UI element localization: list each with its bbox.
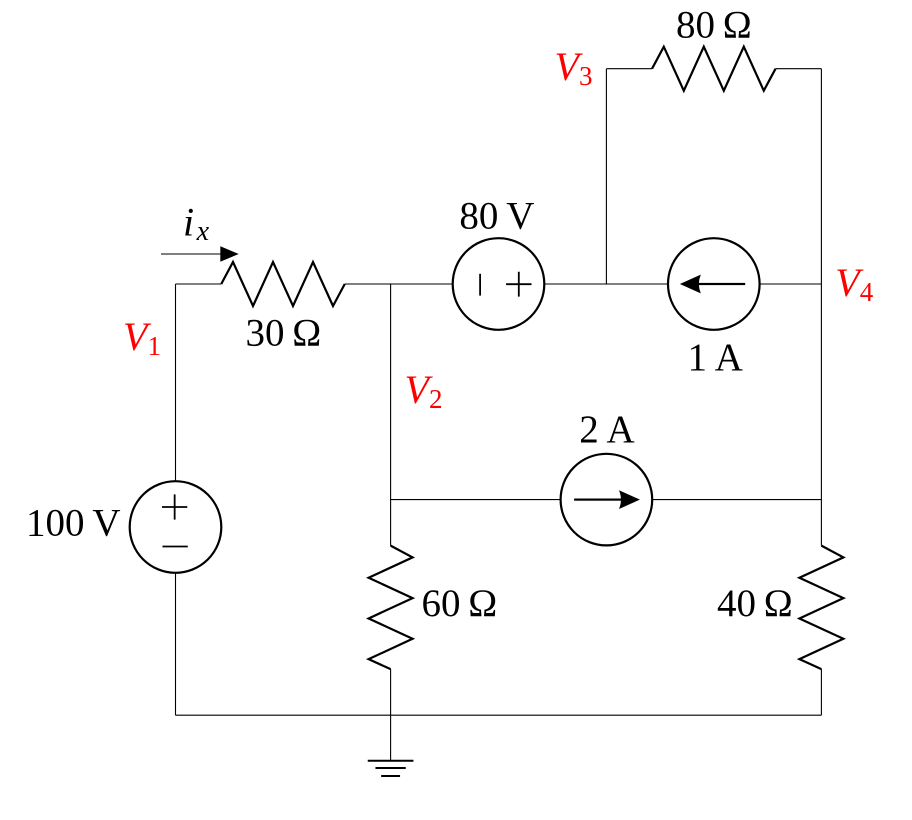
wire 80V source to 1A source with V3 tap xyxy=(544,283,668,285)
svg-text:2 A: 2 A xyxy=(579,408,634,451)
svg-text:100 V: 100 V xyxy=(26,501,120,544)
wire bottom rail xyxy=(176,714,822,716)
svg-text:30 Ω: 30 Ω xyxy=(246,311,322,354)
voltage source 100V minus sign xyxy=(163,546,188,548)
current source 1A arrow xyxy=(680,275,745,294)
resistor 80ohm xyxy=(652,47,776,91)
svg-text:V2: V2 xyxy=(405,367,443,414)
svg-text:80 Ω: 80 Ω xyxy=(676,3,752,46)
svg-text:40 Ω: 40 Ω xyxy=(717,582,793,625)
wire 30ohm to node V2 to 80V source xyxy=(345,283,453,285)
voltage source 80V minus bar xyxy=(479,274,481,296)
voltage source 100V circle xyxy=(130,481,222,573)
current arrow i_x head xyxy=(220,246,238,262)
wire 2A rail left segment xyxy=(391,499,561,501)
resistor 30ohm xyxy=(221,262,345,306)
svg-text:V3: V3 xyxy=(555,44,593,91)
svg-text:ix: ix xyxy=(183,200,210,248)
wire 1A source to node V4 xyxy=(760,283,822,285)
ground xyxy=(368,761,414,776)
wire top-left horizontal V1 to 30ohm xyxy=(176,283,222,285)
wire top loop left segment xyxy=(606,68,652,70)
wire 2A rail right segment xyxy=(652,499,821,501)
current arrow i_x xyxy=(161,253,223,255)
svg-text:60 Ω: 60 Ω xyxy=(422,582,498,625)
svg-text:80 V: 80 V xyxy=(459,194,534,237)
wire left vertical V1 above 100V source xyxy=(175,284,177,481)
current source 1A circle xyxy=(668,238,760,330)
svg-text:V1: V1 xyxy=(123,314,161,361)
current source 2A circle xyxy=(561,454,653,546)
wire right vertical V4 branch upper xyxy=(820,69,822,546)
voltage source 80V circle xyxy=(453,238,545,330)
wire node V3 vertical riser xyxy=(605,69,607,284)
wire node V2 vertical above 60ohm xyxy=(390,284,392,546)
wire left vertical below 100V source xyxy=(175,573,177,715)
voltage source 100V plus sign xyxy=(162,494,187,519)
wire top loop right segment xyxy=(776,68,822,70)
svg-text:1 A: 1 A xyxy=(687,336,742,379)
current source 2A arrow xyxy=(574,490,640,509)
svg-text:V4: V4 xyxy=(835,260,873,307)
resistor 40ohm xyxy=(799,546,843,670)
wire below 60ohm to bottom rail and ground stub xyxy=(390,669,392,760)
resistor 60ohm xyxy=(369,546,413,670)
wire right vertical below 40ohm xyxy=(820,669,822,715)
voltage source 80V plus sign xyxy=(506,272,531,297)
